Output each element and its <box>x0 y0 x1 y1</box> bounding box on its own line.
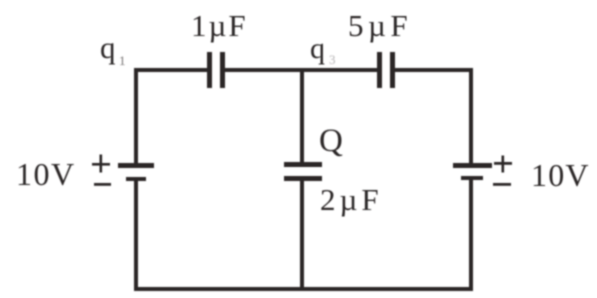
capacitor C2 5uF plates <box>377 52 395 88</box>
wire middle vertical lower (C3 bottom plate to bottom wire) <box>300 179 304 291</box>
wire right vertical upper (top-right corner to battery + plate) <box>469 68 473 166</box>
svg-text:q: q <box>100 30 116 65</box>
wire left vertical lower (battery - plate to bottom wire) <box>134 178 138 291</box>
node label q3 <box>310 32 336 67</box>
wire right vertical lower (battery - plate to bottom wire) <box>469 177 473 291</box>
svg-text:10V: 10V <box>531 157 590 193</box>
node label q1 <box>100 30 126 68</box>
svg-text:q: q <box>310 32 325 65</box>
svg-text:2µF: 2µF <box>320 182 383 217</box>
wire top-right segment (C2 right plate to right corner) <box>393 68 473 72</box>
battery V1 left 10V plates <box>118 163 154 181</box>
svg-text:Q: Q <box>319 123 343 159</box>
wire bottom (common bottom net) <box>134 287 473 291</box>
svg-text:1µF: 1µF <box>191 8 248 43</box>
battery V2 polarity marks + and - <box>493 156 512 186</box>
wire top-left segment (node q1 to C1 left plate) <box>134 68 210 72</box>
battery V2 right 10V plates <box>453 163 492 180</box>
svg-text:3: 3 <box>329 52 336 67</box>
svg-text:1: 1 <box>119 53 126 68</box>
capacitor C3 2uF plates (charge Q) <box>284 162 322 181</box>
svg-text:5µF: 5µF <box>348 8 412 43</box>
battery V1 polarity marks + and - <box>92 155 111 186</box>
wire middle vertical upper (node q3 junction to C3 top plate) <box>300 70 304 163</box>
svg-text:10V: 10V <box>16 156 76 192</box>
capacitor C1 1uF plates <box>207 52 225 88</box>
wire top-middle segment (C1 right plate to C2 left plate through node q3) <box>223 68 379 72</box>
wire left vertical upper (top-left corner to battery + plate) <box>134 68 138 166</box>
